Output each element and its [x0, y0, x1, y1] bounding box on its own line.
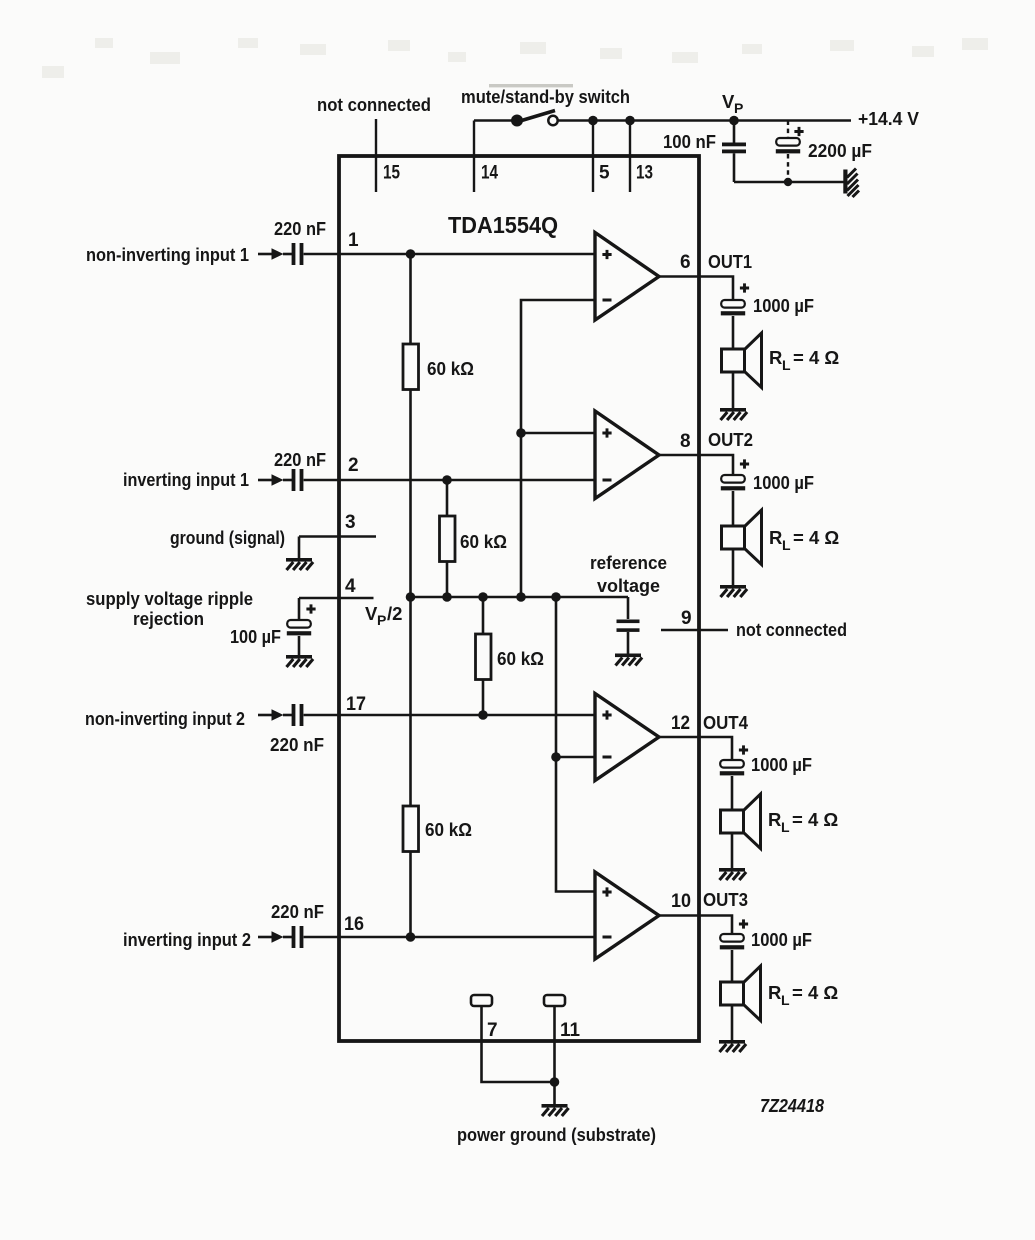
svg-text:1000 µF: 1000 µF: [751, 754, 812, 775]
junction VP/2 col B: [442, 592, 452, 602]
svg-text:13: 13: [636, 163, 653, 184]
svg-text:L: L: [781, 819, 790, 835]
wire OUT1 pin 6: [659, 277, 733, 301]
svg-text:8: 8: [680, 431, 691, 452]
svg-text:9: 9: [681, 608, 692, 629]
svg-text:1000 µF: 1000 µF: [753, 295, 814, 316]
svg-text:2: 2: [348, 455, 359, 476]
svg-text:60 kΩ: 60 kΩ: [460, 531, 507, 552]
wire pin 11 to power ground: [553, 1006, 556, 1104]
capacitor reference voltage: [617, 620, 640, 654]
switch S1 mute/stand-by: [474, 111, 558, 127]
label RL = 4 Ohm OUT1: [769, 347, 839, 373]
svg-text:60 kΩ: 60 kΩ: [497, 648, 544, 669]
wire resistor column B vertical: [446, 480, 449, 597]
svg-text:OUT4: OUT4: [703, 712, 749, 733]
junction VP/2 col A: [406, 592, 416, 602]
label VP: [722, 91, 743, 116]
capacitor 220nF input 1 with arrow: [258, 243, 303, 265]
label RL = 4 Ohm OUT4: [768, 809, 838, 835]
svg-text:non-inverting input 1: non-inverting input 1: [86, 244, 249, 265]
ground speaker OUT2: [720, 585, 747, 597]
resistor R3 60k: [476, 634, 492, 680]
pin 11 terminal: [544, 995, 580, 1041]
junction col D to A2 plus: [516, 428, 526, 438]
capacitor C 1000uF OUT2: [721, 459, 749, 526]
capacitor C 1000uF OUT4: [720, 745, 748, 810]
pin 4 stub wire: [299, 598, 374, 620]
junction pin2 row / resistor column B: [442, 475, 452, 485]
wire reference voltage branch: [627, 597, 630, 619]
wire pin 2 to op-amp A2 - input: [304, 479, 595, 482]
svg-text:P: P: [734, 100, 743, 116]
op-amp A2: [595, 411, 659, 499]
svg-text:TDA1554Q: TDA1554Q: [448, 212, 558, 238]
wire pin 7 to power ground: [482, 1006, 555, 1082]
svg-text:supply voltage ripple: supply voltage ripple: [86, 588, 253, 609]
IC U1 box outline TDA1554Q: [339, 156, 699, 1041]
pin 7 terminal: [471, 995, 498, 1041]
svg-text:not connected: not connected: [317, 94, 431, 115]
ground signal symbol: [286, 558, 313, 570]
resistor R4 60k: [403, 806, 419, 852]
svg-text:R: R: [768, 982, 781, 1003]
svg-text:+14.4 V: +14.4 V: [858, 108, 920, 129]
svg-text:16: 16: [344, 914, 364, 935]
svg-text:14: 14: [481, 163, 498, 184]
pin 3 stub wire: [299, 537, 376, 559]
svg-text:1000 µF: 1000 µF: [751, 929, 812, 950]
resistor R2 60k: [440, 516, 456, 562]
svg-text:11: 11: [560, 1020, 580, 1041]
svg-text:/2: /2: [387, 603, 402, 624]
svg-text:220 nF: 220 nF: [270, 734, 324, 755]
svg-text:7: 7: [487, 1020, 498, 1041]
resistor R1 60k: [403, 344, 419, 390]
op-amp A1: [595, 233, 659, 321]
wire pin 17 to op-amp A3 + input: [304, 714, 595, 717]
svg-text:L: L: [782, 537, 791, 553]
wire feedback column D (A1 minus): [521, 300, 595, 597]
pin 13 stub: [630, 121, 653, 193]
junction VP/2 col D: [516, 592, 526, 602]
svg-text:R: R: [769, 527, 782, 548]
svg-text:100 nF: 100 nF: [663, 131, 716, 152]
svg-text:OUT1: OUT1: [708, 251, 752, 272]
junction col E to A3 minus: [551, 752, 561, 762]
svg-text:220 nF: 220 nF: [274, 218, 326, 239]
capacitor 220nF input 4 with arrow: [258, 926, 303, 948]
svg-text:mute/stand-by switch: mute/stand-by switch: [461, 86, 630, 107]
junction pin1 row / resistor column: [406, 249, 416, 259]
wire feedback column E (A3/A4): [556, 597, 595, 892]
wire OUT3 pin 10: [659, 916, 732, 935]
svg-text:3: 3: [345, 512, 356, 533]
junction VP/2 col E: [551, 592, 561, 602]
wire OUT2 pin 8: [659, 455, 733, 475]
svg-text:= 4 Ω: = 4 Ω: [792, 982, 838, 1003]
label RL = 4 Ohm OUT3: [768, 982, 838, 1008]
capacitor C 1000uF OUT1: [721, 283, 749, 349]
svg-text:P: P: [377, 612, 386, 628]
wire switch to +14.4V rail: [558, 119, 851, 122]
svg-text:ground (signal): ground (signal): [170, 527, 285, 548]
pin 9 stub: [661, 608, 728, 630]
svg-text:reference: reference: [590, 552, 667, 573]
wire pin 1 to op-amp A1 + input: [304, 253, 595, 256]
pin 14 stub: [474, 121, 498, 193]
junction pin 13 on rail: [625, 116, 635, 126]
svg-text:220 nF: 220 nF: [274, 449, 326, 470]
pin 5 stub: [593, 121, 610, 193]
junction VP/2 col C: [478, 592, 488, 602]
svg-text:L: L: [782, 357, 791, 373]
svg-text:inverting input 2: inverting input 2: [123, 929, 251, 950]
pin 15 stub: [376, 119, 400, 192]
node VP/2 rail: [409, 596, 628, 599]
svg-text:60 kΩ: 60 kΩ: [425, 819, 472, 840]
ground speaker OUT3: [719, 1040, 746, 1052]
svg-text:voltage: voltage: [597, 575, 660, 596]
junction 2200uF bottom: [784, 178, 792, 186]
svg-text:L: L: [781, 992, 790, 1008]
svg-text:OUT2: OUT2: [708, 429, 753, 450]
junction pin 5 on rail: [588, 116, 598, 126]
capacitor 100 nF supply decoupling: [722, 121, 746, 183]
speaker RL OUT4: [721, 794, 761, 868]
speaker RL OUT1: [722, 333, 762, 408]
wire pin 16 to op-amp A4 - input: [304, 936, 595, 939]
svg-text:6: 6: [680, 252, 691, 273]
svg-text:12: 12: [671, 713, 690, 734]
capacitor 220nF input 3 with arrow: [258, 704, 303, 726]
label supply voltage ripple rejection: [86, 588, 253, 629]
junction pin16 row / resistor column A: [406, 932, 416, 942]
svg-text:rejection: rejection: [133, 608, 204, 629]
svg-text:5: 5: [599, 163, 610, 184]
ground speaker OUT4: [719, 868, 746, 880]
svg-text:power ground (substrate): power ground (substrate): [457, 1124, 656, 1145]
svg-text:7Z24418: 7Z24418: [760, 1096, 824, 1116]
svg-text:220 nF: 220 nF: [271, 901, 324, 922]
node VP junction: [729, 116, 739, 126]
capacitor C 100 uF ripple: [287, 604, 316, 655]
op-amp A4: [595, 872, 659, 959]
capacitor C 1000uF OUT3: [720, 919, 748, 982]
capacitor C 2200 uF electrolytic: [776, 121, 804, 183]
svg-text:= 4 Ω: = 4 Ω: [793, 347, 839, 368]
speaker RL OUT2: [722, 510, 762, 585]
svg-text:2200 µF: 2200 µF: [808, 140, 872, 161]
junction power ground: [550, 1077, 560, 1087]
label VP/2: [365, 603, 402, 628]
svg-text:inverting input 1: inverting input 1: [123, 469, 249, 490]
label RL = 4 Ohm OUT2: [769, 527, 839, 553]
label reference voltage: [590, 552, 667, 596]
ground reference voltage: [615, 654, 642, 666]
ground 100uF: [286, 655, 313, 667]
op-amp A3: [595, 694, 659, 781]
svg-text:= 4 Ω: = 4 Ω: [792, 809, 838, 830]
svg-text:R: R: [769, 347, 782, 368]
svg-text:15: 15: [383, 163, 400, 184]
svg-text:1: 1: [348, 230, 359, 251]
svg-text:R: R: [768, 809, 781, 830]
wire resistor column C vertical: [482, 597, 485, 715]
svg-text:not connected: not connected: [736, 619, 847, 640]
ground speaker OUT1: [720, 408, 747, 420]
svg-text:1000 µF: 1000 µF: [753, 472, 814, 493]
ground power (substrate): [542, 1104, 569, 1116]
svg-text:non-inverting input 2: non-inverting input 2: [85, 708, 245, 729]
capacitor 220nF input 2 with arrow: [258, 469, 303, 491]
svg-text:OUT3: OUT3: [703, 889, 748, 910]
svg-text:60 kΩ: 60 kΩ: [427, 358, 474, 379]
wire supply caps to ground: [734, 181, 844, 184]
speaker RL OUT3: [721, 966, 761, 1040]
svg-text:100 µF: 100 µF: [230, 626, 281, 647]
wire OUT4 pin 12: [659, 737, 732, 760]
wire resistor column A vertical: [409, 254, 412, 937]
junction pin17 row / resistor column C: [478, 710, 488, 720]
svg-text:10: 10: [671, 891, 691, 912]
svg-text:17: 17: [346, 694, 366, 715]
svg-text:4: 4: [345, 576, 356, 597]
svg-text:= 4 Ω: = 4 Ω: [793, 527, 839, 548]
ground supply (vertical): [843, 169, 859, 198]
